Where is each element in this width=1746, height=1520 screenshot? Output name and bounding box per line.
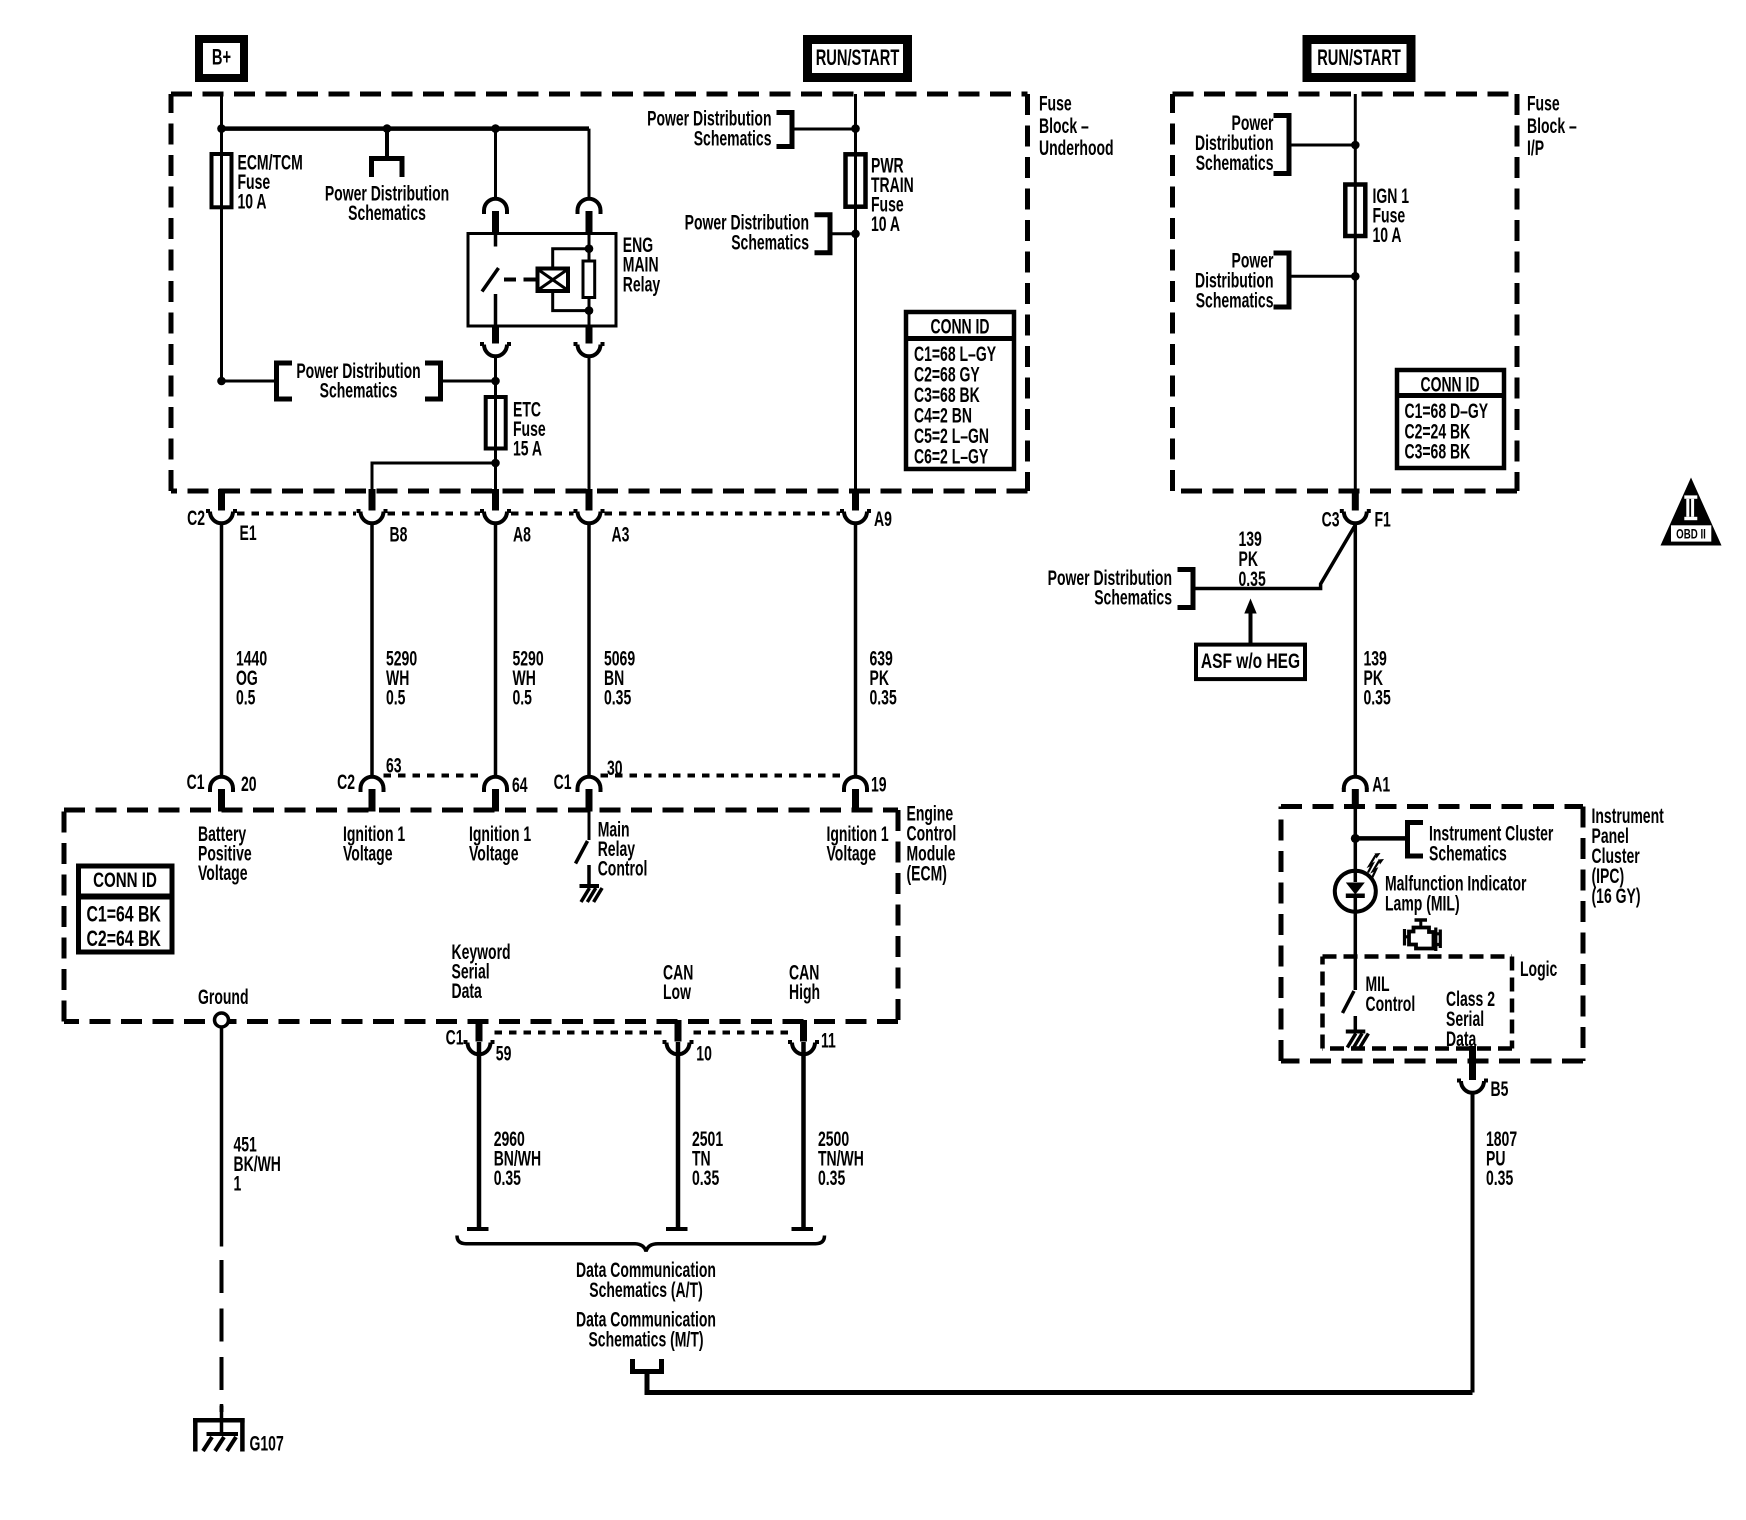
wire B+ feed bbox=[220, 94, 223, 129]
wire relay coil feed bbox=[588, 129, 591, 198]
connector A9 bbox=[840, 489, 871, 523]
wire PDS bracket to ETC bbox=[441, 380, 496, 383]
table CONN ID underhood bbox=[906, 312, 1014, 469]
wire 139 PK bbox=[1354, 525, 1358, 776]
instrument panel cluster box bbox=[1281, 807, 1583, 1062]
svg-text:0.35: 0.35 bbox=[818, 1166, 845, 1190]
label A3 bbox=[612, 523, 630, 547]
connector ECM C1 pin 30 bbox=[578, 777, 601, 812]
label CAN High bbox=[789, 961, 820, 1004]
connector A8 bbox=[480, 489, 511, 523]
relay K1 ENG MAIN Relay bbox=[468, 234, 616, 327]
connector ECM C1 pin 20 bbox=[210, 777, 233, 812]
connector A3 bbox=[574, 489, 605, 523]
svg-text:Voltage: Voltage bbox=[198, 861, 248, 885]
svg-text:RUN/START: RUN/START bbox=[1317, 45, 1401, 70]
svg-text:F1: F1 bbox=[1375, 508, 1391, 532]
fuse ETC 15A bbox=[486, 381, 506, 491]
dotted link 30-19 bbox=[601, 774, 845, 778]
dotted link B8-A8 bbox=[388, 512, 481, 516]
label pin 30 bbox=[607, 756, 623, 780]
label Ground bbox=[198, 985, 249, 1009]
wire relay switch feed bbox=[494, 129, 497, 198]
wire relay out to ETC bbox=[494, 356, 497, 397]
svg-text:11: 11 bbox=[821, 1029, 836, 1053]
node PWR PDS tap 2 bbox=[851, 230, 860, 239]
svg-text:C1: C1 bbox=[187, 770, 205, 794]
svg-text:63: 63 bbox=[386, 754, 402, 778]
fuse IGN 1 10A bbox=[1345, 185, 1365, 237]
label ECM/TCM Fuse 10 A bbox=[238, 151, 303, 214]
connector IPC A1 bbox=[1344, 777, 1367, 808]
label B5 bbox=[1491, 1077, 1509, 1101]
label A9 bbox=[874, 507, 892, 531]
connector C3 pin F1 bbox=[1340, 489, 1371, 523]
label pin 63 bbox=[386, 754, 402, 778]
wire 639 PK bbox=[854, 525, 858, 776]
svg-text:C3=68 BK: C3=68 BK bbox=[1405, 440, 1471, 464]
label Main Relay Control bbox=[598, 818, 648, 881]
wire PDS fork stub bbox=[385, 129, 389, 157]
svg-text:10 A: 10 A bbox=[871, 212, 900, 236]
svg-text:Schematics: Schematics bbox=[1196, 289, 1274, 313]
terminal ground ring bbox=[215, 1013, 229, 1027]
svg-text:C3: C3 bbox=[1322, 508, 1340, 532]
label wire 639 PK 0.35 bbox=[870, 647, 897, 710]
svg-text:30: 30 bbox=[607, 756, 623, 780]
wire 451 solid bbox=[220, 1027, 224, 1247]
power symbol RUN/START ip bbox=[1307, 40, 1411, 78]
label C2 ecm bbox=[337, 770, 355, 794]
svg-text:0.35: 0.35 bbox=[604, 686, 631, 710]
connector ECM C2 pin 63 bbox=[361, 777, 384, 812]
label Ignition 1 Voltage a9 bbox=[827, 822, 889, 865]
node ECM-TCM branch junction bbox=[217, 377, 226, 386]
off-page ref Power Distribution Schematics PWR bottom bbox=[685, 211, 856, 254]
label E1 bbox=[240, 521, 257, 545]
fuse ECM/TCM F1 bbox=[212, 129, 232, 381]
svg-text:Fuse: Fuse bbox=[1039, 92, 1072, 116]
svg-text:0.5: 0.5 bbox=[236, 686, 256, 710]
label Malfunction Indicator Lamp (MIL) bbox=[1385, 872, 1527, 916]
svg-text:Control: Control bbox=[1366, 992, 1416, 1016]
label wire 139 PK 0.35 upper bbox=[1239, 527, 1266, 591]
label wire 2500 TN/WH 0.35 bbox=[818, 1127, 864, 1190]
svg-text:Schematics (A/T): Schematics (A/T) bbox=[589, 1278, 703, 1302]
connector ECM pin 64 bbox=[484, 777, 507, 812]
label C3 bbox=[1322, 508, 1340, 532]
svg-text:C1: C1 bbox=[554, 770, 572, 794]
dotted link A3-A9 bbox=[605, 512, 841, 516]
dotted link 63-64 bbox=[384, 774, 485, 778]
icon check engine bbox=[1405, 920, 1441, 951]
label pin 19 bbox=[871, 773, 887, 797]
svg-text:Ground: Ground bbox=[198, 985, 249, 1009]
label Fuse Block - Underhood bbox=[1039, 92, 1114, 160]
callout ASF w/o HEG bbox=[1196, 645, 1305, 680]
node PDS fork tap bbox=[383, 124, 392, 133]
wire to ICS bracket bbox=[1355, 836, 1407, 841]
dotted link A8-A3 bbox=[511, 512, 574, 516]
label Battery Positive Voltage bbox=[198, 822, 252, 885]
svg-text:Control: Control bbox=[598, 857, 648, 881]
svg-text:CONN ID: CONN ID bbox=[1420, 373, 1479, 397]
svg-text:0.5: 0.5 bbox=[513, 686, 533, 710]
label ENG MAIN Relay bbox=[623, 233, 660, 296]
dotted link 10-11 bbox=[694, 1031, 789, 1035]
wire IPC feed bbox=[1354, 807, 1358, 872]
svg-text:Block –: Block – bbox=[1527, 114, 1577, 138]
wire tap to PDS bracket left bbox=[222, 380, 277, 383]
switch main relay control bbox=[576, 811, 590, 884]
wire RUN/START drop bbox=[854, 94, 857, 491]
connector relay pin 87 bbox=[480, 325, 511, 357]
connector relay pin 85 bbox=[574, 325, 605, 357]
label Data Communication Schematics (A/T) bbox=[576, 1258, 716, 1302]
wire 2500 TN/WH bbox=[792, 1042, 814, 1229]
label pin 20 bbox=[241, 772, 257, 796]
label Keyword Serial Data bbox=[452, 940, 511, 1003]
svg-text:10 A: 10 A bbox=[1373, 223, 1402, 247]
label wire 451 BK/WH 1 bbox=[234, 1133, 281, 1196]
off-page ref Power Distribution Schematics IP top bbox=[1195, 111, 1355, 175]
wire 5290 WH left bbox=[370, 525, 374, 776]
off-page ref Power Distribution Schematics fork bbox=[325, 159, 449, 225]
svg-text:A1: A1 bbox=[1372, 773, 1390, 797]
svg-text:RUN/START: RUN/START bbox=[816, 45, 900, 70]
label A1 bbox=[1372, 773, 1390, 797]
wire class2 link bbox=[647, 1093, 1473, 1393]
table CONN ID ip bbox=[1397, 370, 1504, 468]
label pin 59 bbox=[496, 1042, 512, 1066]
label IGN 1 Fuse 10 A bbox=[1373, 184, 1410, 247]
label wire 1807 PU 0.35 bbox=[1486, 1127, 1517, 1190]
connector IPC B5 bbox=[1457, 1046, 1488, 1093]
svg-text:0.35: 0.35 bbox=[1239, 567, 1266, 591]
dotted link C2-B8 bbox=[237, 512, 356, 516]
wire 451 dashed bbox=[220, 1260, 224, 1412]
brace data wires bbox=[457, 1236, 825, 1252]
off-page connector M/T link bbox=[633, 1359, 662, 1372]
label C2 bbox=[187, 506, 205, 530]
svg-text:I/P: I/P bbox=[1527, 136, 1544, 160]
label wire 5290 WH 0.5 right bbox=[513, 647, 544, 710]
svg-text:0.35: 0.35 bbox=[1486, 1166, 1513, 1190]
connector relay pin 30 bbox=[484, 199, 507, 234]
label PWR TRAIN Fuse 10 A bbox=[871, 154, 914, 236]
svg-text:0.35: 0.35 bbox=[1364, 686, 1391, 710]
fuse PWR TRAIN 10A bbox=[846, 154, 866, 206]
svg-text:Schematics: Schematics bbox=[348, 201, 426, 225]
svg-text:C2: C2 bbox=[337, 770, 355, 794]
wire 2960 BN/WH bbox=[467, 1042, 489, 1229]
svg-text:Data: Data bbox=[452, 979, 483, 1003]
svg-text:0.5: 0.5 bbox=[386, 686, 406, 710]
svg-text:A3: A3 bbox=[612, 523, 630, 547]
svg-text:Lamp (MIL): Lamp (MIL) bbox=[1385, 892, 1460, 916]
connector relay pin 86 bbox=[578, 199, 601, 234]
node relay feed tap bbox=[491, 124, 500, 133]
svg-text:Voltage: Voltage bbox=[469, 842, 519, 866]
label B8 bbox=[390, 523, 408, 547]
power symbol B+ bbox=[199, 39, 244, 78]
label CAN Low bbox=[663, 961, 693, 1004]
svg-text:CONN ID: CONN ID bbox=[93, 867, 157, 891]
svg-text:(16 GY): (16 GY) bbox=[1592, 884, 1641, 908]
label Instrument Panel Cluster IPC 16 GY bbox=[1592, 804, 1664, 908]
fuse block underhood box bbox=[171, 94, 1028, 491]
label Logic bbox=[1520, 957, 1557, 981]
svg-text:Schematics (M/T): Schematics (M/T) bbox=[588, 1328, 703, 1352]
svg-text:1: 1 bbox=[234, 1172, 242, 1196]
wire B+ bus bbox=[222, 126, 590, 131]
svg-text:19: 19 bbox=[871, 773, 887, 797]
wire coil return bbox=[588, 356, 591, 491]
wire ETC branch to B8 bbox=[372, 463, 496, 491]
svg-text:Voltage: Voltage bbox=[827, 842, 877, 866]
svg-text:CONN ID: CONN ID bbox=[930, 315, 989, 339]
svg-text:A9: A9 bbox=[874, 507, 892, 531]
ground main relay control bbox=[580, 886, 603, 902]
svg-text:Block –: Block – bbox=[1039, 114, 1089, 138]
label Engine Control Module (ECM) bbox=[907, 802, 957, 886]
wire 5069 BN bbox=[587, 525, 591, 776]
svg-text:C1=64 BK: C1=64 BK bbox=[87, 903, 161, 927]
svg-text:High: High bbox=[789, 980, 820, 1004]
label Ignition 1 Voltage b8 bbox=[343, 822, 405, 865]
svg-text:OBD II: OBD II bbox=[1676, 527, 1706, 542]
svg-text:B5: B5 bbox=[1491, 1077, 1509, 1101]
wire MIL to switch bbox=[1354, 912, 1358, 991]
connector ECM pin 10 bbox=[663, 1020, 694, 1054]
svg-text:C1: C1 bbox=[446, 1026, 464, 1050]
svg-text:Schematics: Schematics bbox=[320, 379, 398, 403]
svg-text:E1: E1 bbox=[240, 521, 257, 545]
wire 139 diagonal bbox=[1193, 525, 1355, 589]
label F1 bbox=[1375, 508, 1391, 532]
svg-text:Voltage: Voltage bbox=[343, 842, 393, 866]
label wire 5069 BN 0.35 bbox=[604, 647, 635, 710]
label wire 1440 OG 0.5 bbox=[236, 647, 267, 710]
svg-text:A8: A8 bbox=[513, 523, 531, 547]
svg-text:Fuse: Fuse bbox=[1527, 92, 1560, 116]
svg-text:Schematics: Schematics bbox=[731, 230, 809, 254]
label pin 10 bbox=[696, 1042, 712, 1066]
svg-text:0.35: 0.35 bbox=[692, 1166, 719, 1190]
arrow ASF bbox=[1244, 599, 1256, 646]
node PWR PDS tap 1 bbox=[851, 124, 860, 133]
dotted link 59-10 bbox=[495, 1031, 663, 1035]
svg-text:C2=64 BK: C2=64 BK bbox=[87, 928, 161, 952]
label C1 ecm2 bbox=[554, 770, 572, 794]
svg-text:59: 59 bbox=[496, 1042, 512, 1066]
svg-text:0.35: 0.35 bbox=[870, 686, 897, 710]
svg-text:10: 10 bbox=[696, 1042, 712, 1066]
node ETC bottom junction bbox=[491, 459, 500, 468]
wire 1440 OG bbox=[220, 525, 224, 776]
off-page ref Power Distribution Schematics PWR top bbox=[647, 107, 855, 150]
label C1 ecm1 bbox=[187, 770, 205, 794]
label pin 11 bbox=[821, 1029, 836, 1053]
svg-text:C2: C2 bbox=[187, 506, 205, 530]
label pin 64 bbox=[512, 773, 528, 797]
svg-text:C6=2 L–GY: C6=2 L–GY bbox=[914, 444, 988, 468]
svg-text:Schematics: Schematics bbox=[694, 126, 772, 150]
node IP PDS tap 1 bbox=[1351, 141, 1360, 150]
symbol OBD II bbox=[1661, 478, 1722, 546]
wire IGN1 feed bbox=[1354, 94, 1357, 491]
connector ECM C1 pin 59 bbox=[464, 1020, 495, 1054]
svg-text:(ECM): (ECM) bbox=[907, 862, 947, 886]
svg-text:Low: Low bbox=[663, 980, 691, 1004]
connector ECM pin 19 bbox=[844, 777, 867, 812]
table CONN ID ecm bbox=[79, 866, 173, 952]
label wire 2960 BN/WH 0.35 bbox=[494, 1127, 541, 1190]
wire 5290 WH right bbox=[494, 525, 498, 776]
node ICS tap bbox=[1351, 834, 1360, 843]
label Ignition 1 Voltage a8 bbox=[469, 822, 531, 865]
label ETC Fuse 15 A bbox=[513, 398, 546, 461]
label wire 139 PK 0.35 lower bbox=[1364, 647, 1391, 710]
node IP PDS tap 2 bbox=[1351, 272, 1360, 281]
node ETC top junction bbox=[491, 377, 500, 386]
svg-text:Schematics: Schematics bbox=[1094, 586, 1172, 610]
svg-text:0.35: 0.35 bbox=[494, 1166, 521, 1190]
ground G107 bbox=[193, 1404, 245, 1452]
label Data Communication Schematics (M/T) bbox=[576, 1308, 716, 1352]
off-page ref Power Distribution Schematics IP bottom bbox=[1195, 249, 1355, 313]
ground MIL control bbox=[1346, 1032, 1369, 1048]
label wire 5290 WH 0.5 left bbox=[386, 647, 417, 710]
svg-text:15 A: 15 A bbox=[513, 437, 542, 461]
svg-text:20: 20 bbox=[241, 772, 257, 796]
fuse block ip box bbox=[1173, 94, 1518, 491]
svg-text:Schematics: Schematics bbox=[1429, 841, 1507, 865]
connector C2 pin E1 bbox=[206, 489, 237, 523]
connector B8 bbox=[357, 489, 388, 523]
svg-text:Schematics: Schematics bbox=[1196, 151, 1274, 175]
node bus junction E1 bbox=[217, 124, 226, 133]
logic box bbox=[1323, 957, 1513, 1049]
label C1 ecm-bottom bbox=[446, 1026, 464, 1050]
engine control module box bbox=[64, 810, 898, 1022]
label A8 bbox=[513, 523, 531, 547]
connector ECM pin 11 bbox=[788, 1020, 819, 1054]
svg-text:G107: G107 bbox=[250, 1432, 284, 1456]
label MIL Control bbox=[1366, 972, 1416, 1016]
svg-text:Relay: Relay bbox=[623, 272, 660, 296]
label Class 2 Serial Data bbox=[1446, 987, 1495, 1051]
svg-text:B+: B+ bbox=[212, 45, 231, 70]
lamp MIL bbox=[1335, 853, 1384, 912]
switch MIL control bbox=[1343, 991, 1356, 1030]
off-page ref Power Distribution Schematics mid bbox=[277, 359, 441, 402]
svg-text:Underhood: Underhood bbox=[1039, 136, 1114, 160]
label G107 bbox=[250, 1432, 284, 1456]
svg-text:64: 64 bbox=[512, 773, 528, 797]
svg-text:Logic: Logic bbox=[1520, 957, 1557, 981]
power symbol RUN/START underhood bbox=[808, 40, 908, 78]
off-page ref Power Distribution Schematics 139 bbox=[1048, 566, 1193, 609]
off-page ref Instrument Cluster Schematics bbox=[1408, 821, 1554, 865]
svg-text:ASF w/o HEG: ASF w/o HEG bbox=[1201, 648, 1300, 672]
label Fuse Block - I/P bbox=[1527, 92, 1577, 160]
wire 2501 TN bbox=[666, 1042, 688, 1229]
svg-text:10 A: 10 A bbox=[238, 190, 267, 214]
label wire 2501 TN 0.35 bbox=[692, 1127, 723, 1190]
svg-text:B8: B8 bbox=[390, 523, 408, 547]
